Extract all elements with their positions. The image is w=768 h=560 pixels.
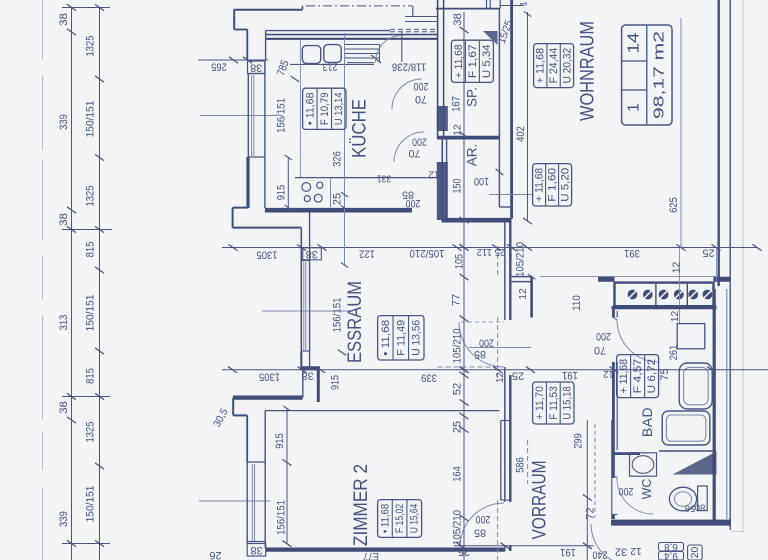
svg-text:38: 38 — [58, 13, 70, 26]
svg-text:38: 38 — [58, 213, 70, 226]
svg-text:U 15,64: U 15,64 — [409, 504, 421, 533]
svg-text:77: 77 — [450, 294, 462, 306]
svg-text:391: 391 — [624, 247, 640, 259]
svg-text:98,17 m2: 98,17 m2 — [651, 31, 667, 119]
svg-text:156/151: 156/151 — [275, 500, 287, 535]
svg-text:80: 80 — [695, 503, 705, 514]
svg-text:12: 12 — [428, 168, 440, 179]
svg-text:164: 164 — [451, 466, 463, 482]
svg-text:105/210: 105/210 — [409, 247, 444, 259]
svg-text:9,4: 9,4 — [664, 550, 678, 560]
svg-text:339: 339 — [421, 371, 437, 383]
svg-text:1325: 1325 — [85, 36, 97, 57]
svg-text:915: 915 — [274, 433, 286, 449]
svg-text:200: 200 — [596, 330, 611, 342]
svg-text:85: 85 — [474, 527, 486, 539]
svg-text:ESSRAUM: ESSRAUM — [345, 281, 366, 363]
svg-text:25: 25 — [702, 246, 714, 258]
svg-text:+ 11,68: + 11,68 — [535, 48, 547, 84]
svg-text:167: 167 — [450, 96, 462, 112]
svg-text:586: 586 — [514, 457, 526, 473]
svg-text:BAD: BAD — [639, 407, 655, 437]
svg-text:F 4,57: F 4,57 — [632, 359, 644, 394]
svg-text:150: 150 — [452, 179, 464, 194]
svg-text:32: 32 — [615, 546, 627, 558]
svg-text:U 20,32: U 20,32 — [561, 48, 573, 84]
svg-text:156/151: 156/151 — [275, 98, 287, 133]
svg-text:F 11,49: F 11,49 — [395, 320, 407, 356]
svg-text:200: 200 — [479, 337, 494, 349]
svg-text:85: 85 — [474, 348, 486, 360]
svg-text:E77: E77 — [363, 550, 379, 560]
svg-text:213: 213 — [323, 61, 338, 73]
svg-text:261: 261 — [668, 345, 680, 361]
svg-text:ZIMMER 2: ZIMMER 2 — [351, 464, 372, 546]
svg-text:56: 56 — [685, 504, 695, 515]
svg-text:+ 11,70: + 11,70 — [534, 386, 546, 420]
svg-text:14: 14 — [625, 32, 642, 53]
svg-text:200: 200 — [412, 136, 427, 148]
svg-text:1: 1 — [519, 1, 530, 6]
svg-text:12: 12 — [495, 372, 506, 383]
svg-text:191: 191 — [560, 546, 576, 558]
svg-text:U 13,14: U 13,14 — [333, 92, 345, 125]
svg-text:+ 11,68: + 11,68 — [534, 168, 546, 202]
svg-text:265: 265 — [211, 60, 227, 72]
svg-text:122: 122 — [359, 247, 375, 259]
svg-text:191: 191 — [562, 369, 578, 381]
svg-text:313: 313 — [58, 315, 70, 331]
svg-text:915: 915 — [330, 375, 342, 390]
svg-text:402: 402 — [515, 126, 527, 142]
svg-text:1325: 1325 — [85, 186, 97, 207]
svg-text:118/236: 118/236 — [392, 61, 426, 73]
svg-text:70: 70 — [409, 147, 421, 159]
svg-text:38: 38 — [58, 401, 70, 414]
svg-text:U 6,72: U 6,72 — [646, 359, 658, 394]
svg-text:+ 11,68: + 11,68 — [618, 359, 630, 394]
svg-text:12: 12 — [603, 368, 614, 379]
svg-text:• 11,68: • 11,68 — [379, 504, 391, 533]
svg-text:72: 72 — [584, 507, 596, 519]
svg-text:70: 70 — [594, 344, 606, 356]
svg-text:VORRAUM: VORRAUM — [529, 461, 550, 540]
svg-text:815: 815 — [85, 368, 97, 384]
svg-text:12: 12 — [452, 124, 463, 136]
svg-text:F 24,44: F 24,44 — [548, 48, 560, 84]
svg-text:F 1,67: F 1,67 — [467, 44, 479, 78]
svg-text:1305: 1305 — [257, 248, 278, 260]
svg-text:F 1,60: F 1,60 — [547, 168, 559, 202]
svg-text:299: 299 — [572, 433, 584, 449]
svg-text:110: 110 — [571, 295, 583, 311]
svg-text:WC: WC — [640, 479, 654, 500]
svg-text:240: 240 — [593, 549, 608, 560]
svg-text:331: 331 — [377, 172, 391, 183]
svg-text:KÜCHE: KÜCHE — [350, 99, 371, 158]
svg-text:75: 75 — [659, 369, 671, 381]
svg-text:U 13,56: U 13,56 — [411, 320, 423, 356]
svg-text:52: 52 — [451, 383, 463, 395]
svg-text:625: 625 — [668, 197, 680, 213]
svg-text:+ 11,68: + 11,68 — [453, 44, 465, 78]
svg-text:105/210: 105/210 — [451, 328, 463, 363]
svg-text:85: 85 — [402, 189, 414, 201]
svg-text:339: 339 — [58, 511, 70, 527]
svg-text:38: 38 — [452, 13, 464, 25]
svg-text:915: 915 — [275, 185, 287, 201]
svg-text:200: 200 — [414, 80, 429, 92]
svg-text:38: 38 — [250, 544, 262, 556]
svg-text:339: 339 — [58, 114, 70, 130]
svg-text:AR.: AR. — [465, 144, 480, 167]
svg-text:25: 25 — [332, 193, 344, 205]
svg-text:150/151: 150/151 — [85, 101, 97, 138]
svg-text:12: 12 — [671, 262, 682, 274]
svg-text:38: 38 — [301, 370, 313, 382]
svg-text:12: 12 — [670, 311, 681, 323]
svg-text:150/151: 150/151 — [85, 295, 97, 332]
svg-text:F 15,02: F 15,02 — [394, 504, 406, 533]
svg-text:25 112: 25 112 — [476, 246, 505, 257]
svg-text:12: 12 — [518, 288, 529, 300]
svg-text:150/151: 150/151 — [85, 486, 97, 523]
svg-text:38: 38 — [306, 248, 318, 260]
svg-text:F 10,79: F 10,79 — [319, 92, 331, 125]
svg-text:815: 815 — [85, 242, 97, 258]
svg-text:25: 25 — [451, 421, 463, 433]
svg-text:20: 20 — [690, 547, 701, 559]
svg-text:SP.: SP. — [465, 87, 480, 107]
svg-text:25: 25 — [512, 370, 524, 382]
svg-text:U 15,18: U 15,18 — [562, 386, 574, 420]
svg-text:26: 26 — [209, 549, 221, 560]
svg-text:200: 200 — [476, 513, 491, 525]
svg-text:U 5,20: U 5,20 — [560, 168, 572, 202]
svg-text:U 5,34: U 5,34 — [481, 44, 493, 78]
svg-text:70: 70 — [415, 93, 427, 105]
svg-text:105/210: 105/210 — [451, 510, 463, 545]
svg-text:• 11,68: • 11,68 — [304, 92, 316, 125]
svg-text:105/210: 105/210 — [514, 242, 526, 277]
svg-text:200: 200 — [619, 485, 634, 497]
svg-text:WOHNRAUM: WOHNRAUM — [578, 21, 599, 121]
svg-text:1: 1 — [625, 103, 642, 112]
svg-text:F 11,53: F 11,53 — [548, 386, 560, 420]
svg-text:326: 326 — [331, 151, 343, 167]
svg-text:12: 12 — [630, 545, 642, 556]
svg-text:1305: 1305 — [259, 370, 280, 382]
svg-text:1325: 1325 — [85, 422, 97, 443]
svg-text:156/151: 156/151 — [331, 297, 343, 332]
svg-text:100: 100 — [474, 175, 489, 187]
svg-text:• 11,68: • 11,68 — [380, 320, 392, 356]
